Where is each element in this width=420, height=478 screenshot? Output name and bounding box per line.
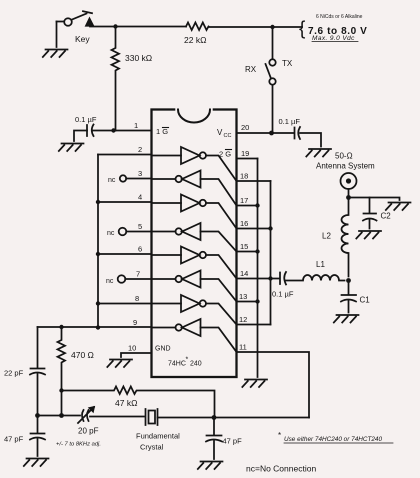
pin 1 wire [114,130,152,132]
svg-text:TX: TX [282,59,293,68]
svg-text:22 kΩ: 22 kΩ [184,35,206,45]
wire cap to ground (pin1) [74,131,114,142]
svg-text:nc=No Connection: nc=No Connection [246,464,316,474]
ground (47pF right) [198,462,223,470]
svg-text:17: 17 [240,196,248,205]
pin 9 wire [38,326,152,328]
svg-text:nc: nc [107,230,115,237]
ground (shield) [386,203,411,211]
svg-text:13: 13 [239,292,247,301]
svg-text:1: 1 [134,121,138,130]
svg-text:330 kΩ: 330 kΩ [125,53,152,63]
label Vcc inside [217,128,231,139]
wire cap to ground (pin20) [300,133,321,147]
input rail pins 2/4/6/8 [97,155,99,328]
svg-text:470 Ω: 470 Ω [71,350,94,360]
ground (key) [43,50,68,58]
svg-text:240: 240 [190,361,202,368]
pin 11 wire [237,352,310,418]
switch S2 RX/TX [266,59,276,84]
svg-text:14: 14 [240,269,248,278]
node 470/47k junction [59,388,63,392]
capacitor C1 [348,281,350,295]
node key/330k junction [113,24,117,28]
pin 18 wire [237,180,271,182]
resistor R 330 kOhm [112,27,120,131]
svg-text:6 NiCds or 6 Alkaline: 6 NiCds or 6 Alkaline [316,14,363,20]
node L1/L2/C1 junction [346,278,351,283]
inductor L2 [342,198,349,277]
pin 10 wire [121,353,152,357]
svg-text:Max. 9.0 Vdc: Max. 9.0 Vdc [312,35,355,42]
svg-text:Antenna System: Antenna System [316,162,375,171]
inverter U1e [152,247,237,279]
svg-text:5: 5 [138,222,142,231]
svg-text:GND: GND [155,346,171,353]
inverter U1b [152,171,237,206]
pin 19 wire [237,158,258,160]
wire crystal to pin 11 riser [158,417,310,419]
svg-text:+/- 7 to 8KHz adj.: +/- 7 to 8KHz adj. [56,442,101,448]
svg-text:9: 9 [133,318,137,327]
svg-text:7: 7 [136,270,140,279]
svg-text:nc: nc [106,278,114,285]
capacitor 47 pF (left) [31,433,45,435]
pin 5 nc [119,228,127,236]
pin 16 wire [237,228,271,230]
note: use either 74HC240 or 74HCT240 [278,431,382,443]
svg-text:*: * [278,431,281,440]
pin 20 wire [237,132,272,134]
svg-text:74HC: 74HC [168,361,186,368]
battery brace and voltage annotation [299,14,367,42]
ground (C2) [356,231,381,239]
pin 6 wire [98,253,152,255]
inverter U1h [152,319,237,352]
svg-text:1 G: 1 G [156,127,168,136]
node 47pF tap junction [212,415,217,420]
svg-text:3: 3 [138,169,142,178]
node 470 rail top [59,325,63,329]
svg-text:0.1 µF: 0.1 µF [75,115,97,124]
svg-text:47 pF: 47 pF [223,437,243,446]
svg-text:Use either 74HC240 or 74HCT240: Use either 74HC240 or 74HCT240 [284,436,382,443]
node crystal row left junction [35,413,40,418]
capacitor 0.1uF output coupling [279,273,281,285]
node antenna junction [346,195,351,200]
ground (47pF left) [24,459,49,467]
svg-text:0.1 µF: 0.1 µF [272,290,294,299]
svg-text:Key: Key [75,34,90,44]
svg-text:C2: C2 [381,212,392,221]
pin 12 wire [237,324,271,326]
crystal Y1 fundamental [146,409,158,425]
svg-text:47 pF: 47 pF [4,435,24,444]
pin 4 wire [98,201,152,203]
label 74HC240 inside [168,357,202,368]
svg-text:2 G: 2 G [219,150,231,159]
svg-text:50-Ω: 50-Ω [335,152,353,161]
wire 22k to battery brace [209,26,303,28]
inverter U1a [152,147,237,181]
svg-text:47 kΩ: 47 kΩ [115,398,137,408]
pin 14 wire [237,278,280,280]
svg-text:L2: L2 [322,232,331,241]
left rail corner to 22pF [37,327,39,368]
svg-text:20: 20 [241,123,249,132]
pin 13 wire [237,301,258,303]
resistor R 47 kOhm [62,387,215,418]
svg-text:4: 4 [138,193,142,202]
inductor L1 [286,275,345,281]
svg-text:11: 11 [239,343,247,352]
wire to 47pF left [37,416,39,434]
svg-text:Fundamental: Fundamental [136,432,180,441]
capacitor 0.1uF at pin 20 [272,132,295,134]
wire antenna node to C2 and shield ground [349,198,400,201]
inverter U1g [152,295,237,325]
capacitor 22 pF [31,368,45,370]
svg-text:18: 18 [240,172,248,181]
capacitor 47 pF (right) [213,418,215,436]
IC notch [177,108,211,111]
svg-text:*: * [186,357,189,364]
ground (pin 10) [107,360,132,368]
svg-text:2: 2 [138,145,142,154]
svg-text:8: 8 [135,294,139,303]
antenna connector J1 [348,189,350,196]
inverter U1f [152,271,237,302]
resistor R 22 kOhm [186,23,208,31]
bus line A (grounded inputs) [257,159,259,378]
ground (pin 1 cap) [59,144,84,152]
pin 2 wire [98,154,152,156]
capacitor 0.1uF at pin 1 [86,125,88,136]
pin 17 wire [237,205,258,207]
pin 15 wire [237,251,258,253]
IC U1 74HC240 body [152,110,237,378]
pin 8 wire [98,303,152,305]
ground (C1) [334,315,359,323]
node TX branch junction [270,25,274,29]
svg-text:10: 10 [128,344,136,353]
svg-text:22 pF: 22 pF [4,369,24,378]
wire 22pF to crystal row [37,374,39,416]
svg-text:{: { [299,19,306,40]
pin 3 nc [120,175,126,181]
svg-text:RX: RX [245,65,257,74]
inverter U1d [152,223,237,252]
svg-text:6: 6 [138,245,142,254]
trimmer capacitor 20 pF [82,410,84,421]
svg-text:20 pF: 20 pF [78,427,99,436]
ground (pin 20 cap) [306,149,331,157]
svg-text:CC: CC [224,133,232,139]
svg-text:16: 16 [240,219,248,228]
capacitor C2 [369,198,371,214]
wire TX switch to pin 20 node [272,85,274,133]
resistor R 470 Ohm [58,327,66,416]
wire key to resistor 22k [90,26,186,28]
svg-text:L1: L1 [316,260,325,269]
svg-text:V: V [217,128,223,137]
wire junction to TX switch [272,27,274,59]
label 1G inside [156,127,168,136]
svg-text:nc: nc [108,177,116,184]
svg-text:Crystal: Crystal [140,443,164,452]
pin 7 nc [118,275,126,283]
ground (bus A) [242,380,267,388]
svg-text:19: 19 [241,149,249,158]
wire 20pF to crystal [90,416,144,418]
inverter U1c [152,195,237,229]
svg-text:12: 12 [239,315,247,324]
wire crystal row left [38,415,81,417]
wire key to ground [56,22,58,48]
svg-text:0.1 µF: 0.1 µF [279,117,301,126]
svg-text:C1: C1 [360,296,371,305]
bus line B (paralleled outputs) [270,181,272,325]
key switch S1 [57,11,94,26]
svg-text:15: 15 [240,242,248,251]
